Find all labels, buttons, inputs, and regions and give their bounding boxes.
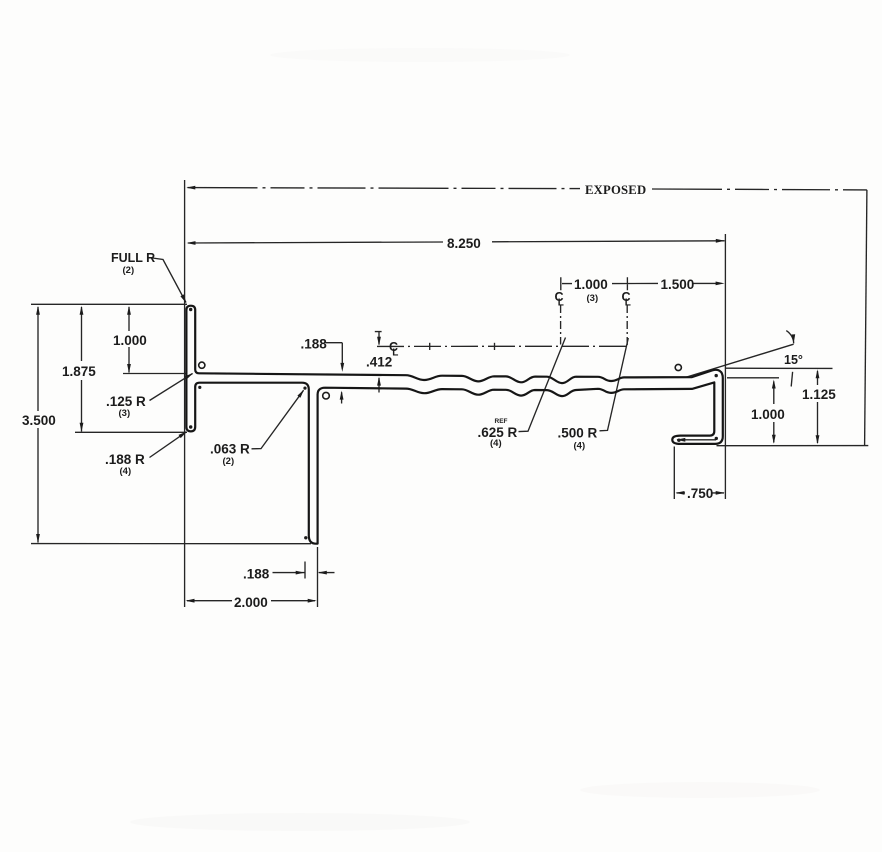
svg-text:1.125: 1.125 xyxy=(802,387,836,402)
svg-text:(2): (2) xyxy=(223,456,235,467)
wire web-top left extension line (1.000 lower ref) xyxy=(123,373,186,375)
wire left vertical extension line xyxy=(184,180,186,607)
node arrowhead 1.125 down xyxy=(816,435,820,444)
wire 15-degree arc with arrow xyxy=(786,331,793,344)
svg-text:(3): (3) xyxy=(587,293,599,304)
wire 1.125 dimension line xyxy=(817,371,819,443)
node radius-center dot box top-right xyxy=(303,387,306,390)
wire .188R leader xyxy=(150,432,187,458)
node arrowhead 1.000-right down xyxy=(772,435,776,444)
wire hook interior arrow line xyxy=(677,439,716,441)
svg-text:L: L xyxy=(625,298,631,309)
svg-text:EXPOSED: EXPOSED xyxy=(585,183,646,197)
wire .500R leader xyxy=(600,338,629,431)
wire 3.500 dimension line xyxy=(37,307,39,543)
wire horizontal centerline dash-dot xyxy=(377,345,629,347)
node centerline tick 2 xyxy=(494,343,496,350)
node radius-center dot box bottom xyxy=(304,536,307,539)
svg-text:(4): (4) xyxy=(574,441,586,452)
label centerline symbol 2 xyxy=(622,290,631,309)
svg-text:1.500: 1.500 xyxy=(661,277,695,292)
svg-text:L: L xyxy=(558,298,564,309)
node arrowhead 1.000-left bottom xyxy=(127,364,131,373)
node arrowhead .188R leader xyxy=(179,431,188,438)
node o-marker at web junction xyxy=(199,362,205,368)
node arrowhead EXPOSED left xyxy=(186,186,195,190)
wire .063R leader xyxy=(252,390,304,449)
wire top-left horizontal extension line xyxy=(31,303,187,305)
wire 15-degree angled line xyxy=(686,344,794,377)
node arrowhead hook interior left xyxy=(676,438,685,442)
svg-text:.500 R: .500 R xyxy=(558,426,598,441)
wire 1.000 left dimension line xyxy=(128,307,130,373)
node radius-center dot hook end cap xyxy=(677,439,680,442)
node arrowhead 1.875 bottom xyxy=(80,423,84,432)
node arrowhead FULL-R leader xyxy=(180,294,186,303)
node arrowhead .188-top up xyxy=(340,391,344,400)
wire vertical centerline 1 (x=560.8) xyxy=(560,305,562,345)
wire 1.875 dimension line xyxy=(81,307,83,432)
wire 1.875 bottom extension line xyxy=(75,431,187,433)
scan smudge bottom-right xyxy=(580,782,820,798)
svg-text:1.875: 1.875 xyxy=(62,364,96,379)
svg-text:1.000: 1.000 xyxy=(574,277,608,292)
node arrowhead 2.000 right xyxy=(308,599,317,603)
node radius-center dot bar bottom xyxy=(189,425,192,428)
wire tick below 15 degrees xyxy=(791,372,792,387)
wire 1.000(3)/1.500 dimension line with end ticks xyxy=(561,277,719,290)
node radius-center dot box top-left xyxy=(198,386,201,389)
svg-text:REF: REF xyxy=(495,418,508,425)
wire 3.500 bottom extension line xyxy=(31,543,311,545)
svg-text:(4): (4) xyxy=(120,466,132,477)
label centerline symbol horizontal xyxy=(389,340,398,359)
wire 1.000 right dimension line xyxy=(773,382,775,443)
node o-marker at hook top xyxy=(675,364,681,370)
svg-text:.063 R: .063 R xyxy=(210,442,250,457)
wire .412 dimension (top tick, upper arrow line, lower arrow line) xyxy=(375,332,382,393)
svg-text:8.250: 8.250 xyxy=(447,236,481,251)
svg-text:(3): (3) xyxy=(119,408,131,419)
node arrowhead 1.000-right up xyxy=(772,380,776,389)
svg-text:.125 R: .125 R xyxy=(106,394,146,409)
wire .625R leader xyxy=(519,338,566,432)
node arrowhead 1.000-left top xyxy=(127,306,131,315)
wire bottom-right extension line y=445.7 xyxy=(717,445,869,447)
svg-text:.188: .188 xyxy=(243,567,270,582)
node arrowhead 2.000 left xyxy=(186,599,195,603)
node arrowhead .063R leader xyxy=(297,389,304,397)
node arrowhead .125R leader xyxy=(185,373,194,379)
label centerline symbol 1 xyxy=(555,290,564,309)
wire .125R leader xyxy=(150,374,193,401)
wire FULL R leader xyxy=(153,258,187,303)
node arrowhead .412 up xyxy=(377,377,381,386)
svg-text:.412: .412 xyxy=(366,355,392,370)
part profile outline (extrusion cross-section) xyxy=(186,306,722,544)
svg-text:(4): (4) xyxy=(490,438,502,449)
node arrowhead 15-degree arc xyxy=(792,334,796,343)
wire 2.000 dimension line xyxy=(187,600,315,602)
svg-text:.188 R: .188 R xyxy=(105,452,145,467)
node arrowhead 1.875 top xyxy=(80,306,84,315)
wire right vertical extension line (from EXPOSED corner) xyxy=(865,190,867,446)
svg-text:.188: .188 xyxy=(301,337,328,352)
node radius-center dot bar top xyxy=(189,308,192,311)
node arrowhead 3.500 top xyxy=(36,306,40,315)
node arrowhead 3.500 bottom xyxy=(36,534,40,543)
node arrowhead .750 right xyxy=(716,491,725,495)
svg-text:L: L xyxy=(392,348,398,359)
wire horizontal reference line at hook inner top xyxy=(727,377,779,379)
wire .188 top bracket and arrow lines xyxy=(326,343,343,404)
scan smudge bottom-left xyxy=(130,813,470,831)
wire EXPOSED dash-dot dimension line xyxy=(188,188,867,190)
svg-text:1.000: 1.000 xyxy=(113,333,147,348)
svg-text:.750: .750 xyxy=(687,486,713,501)
node arrowhead .188-bottom left xyxy=(318,571,327,575)
node centerline tick 1 xyxy=(429,343,431,350)
wire horizontal reference line at hook top xyxy=(725,367,832,369)
node o-marker at lower web start xyxy=(323,392,330,399)
node arrowhead 1.500 right xyxy=(716,282,725,286)
scan smudge top-middle xyxy=(270,48,570,62)
node arrowhead .188-bottom right xyxy=(296,571,305,575)
node arrowhead 1.125 up xyxy=(816,369,820,378)
wire .750 left extension line xyxy=(673,447,675,500)
wire .188 bottom dimension line xyxy=(273,572,335,574)
wire long right extension line x=725.4 xyxy=(724,234,726,499)
node radius-center dot hook top xyxy=(715,374,718,377)
wire .188 bottom left tick xyxy=(304,562,306,579)
node arrowhead .750 left xyxy=(676,491,685,495)
node arrowhead .412 down xyxy=(377,337,381,346)
svg-text:FULL R: FULL R xyxy=(111,251,155,265)
svg-text:3.500: 3.500 xyxy=(22,413,56,428)
wire right wall extension below box xyxy=(317,547,319,607)
wire 8.250 dimension line xyxy=(188,241,725,243)
svg-text:2.000: 2.000 xyxy=(234,595,268,610)
svg-text:15°: 15° xyxy=(784,353,803,367)
svg-text:1.000: 1.000 xyxy=(751,407,785,422)
node arrowhead .188-top down xyxy=(340,363,344,372)
node arrowhead 8.250 right xyxy=(716,239,725,243)
wire .750 dimension line xyxy=(677,492,725,494)
wire vertical centerline 2 (x=627.4) xyxy=(626,305,628,347)
svg-text:(2): (2) xyxy=(123,265,135,276)
node arrowhead 8.250 left xyxy=(187,241,196,245)
node radius-center dot hook bottom corner xyxy=(715,437,718,440)
